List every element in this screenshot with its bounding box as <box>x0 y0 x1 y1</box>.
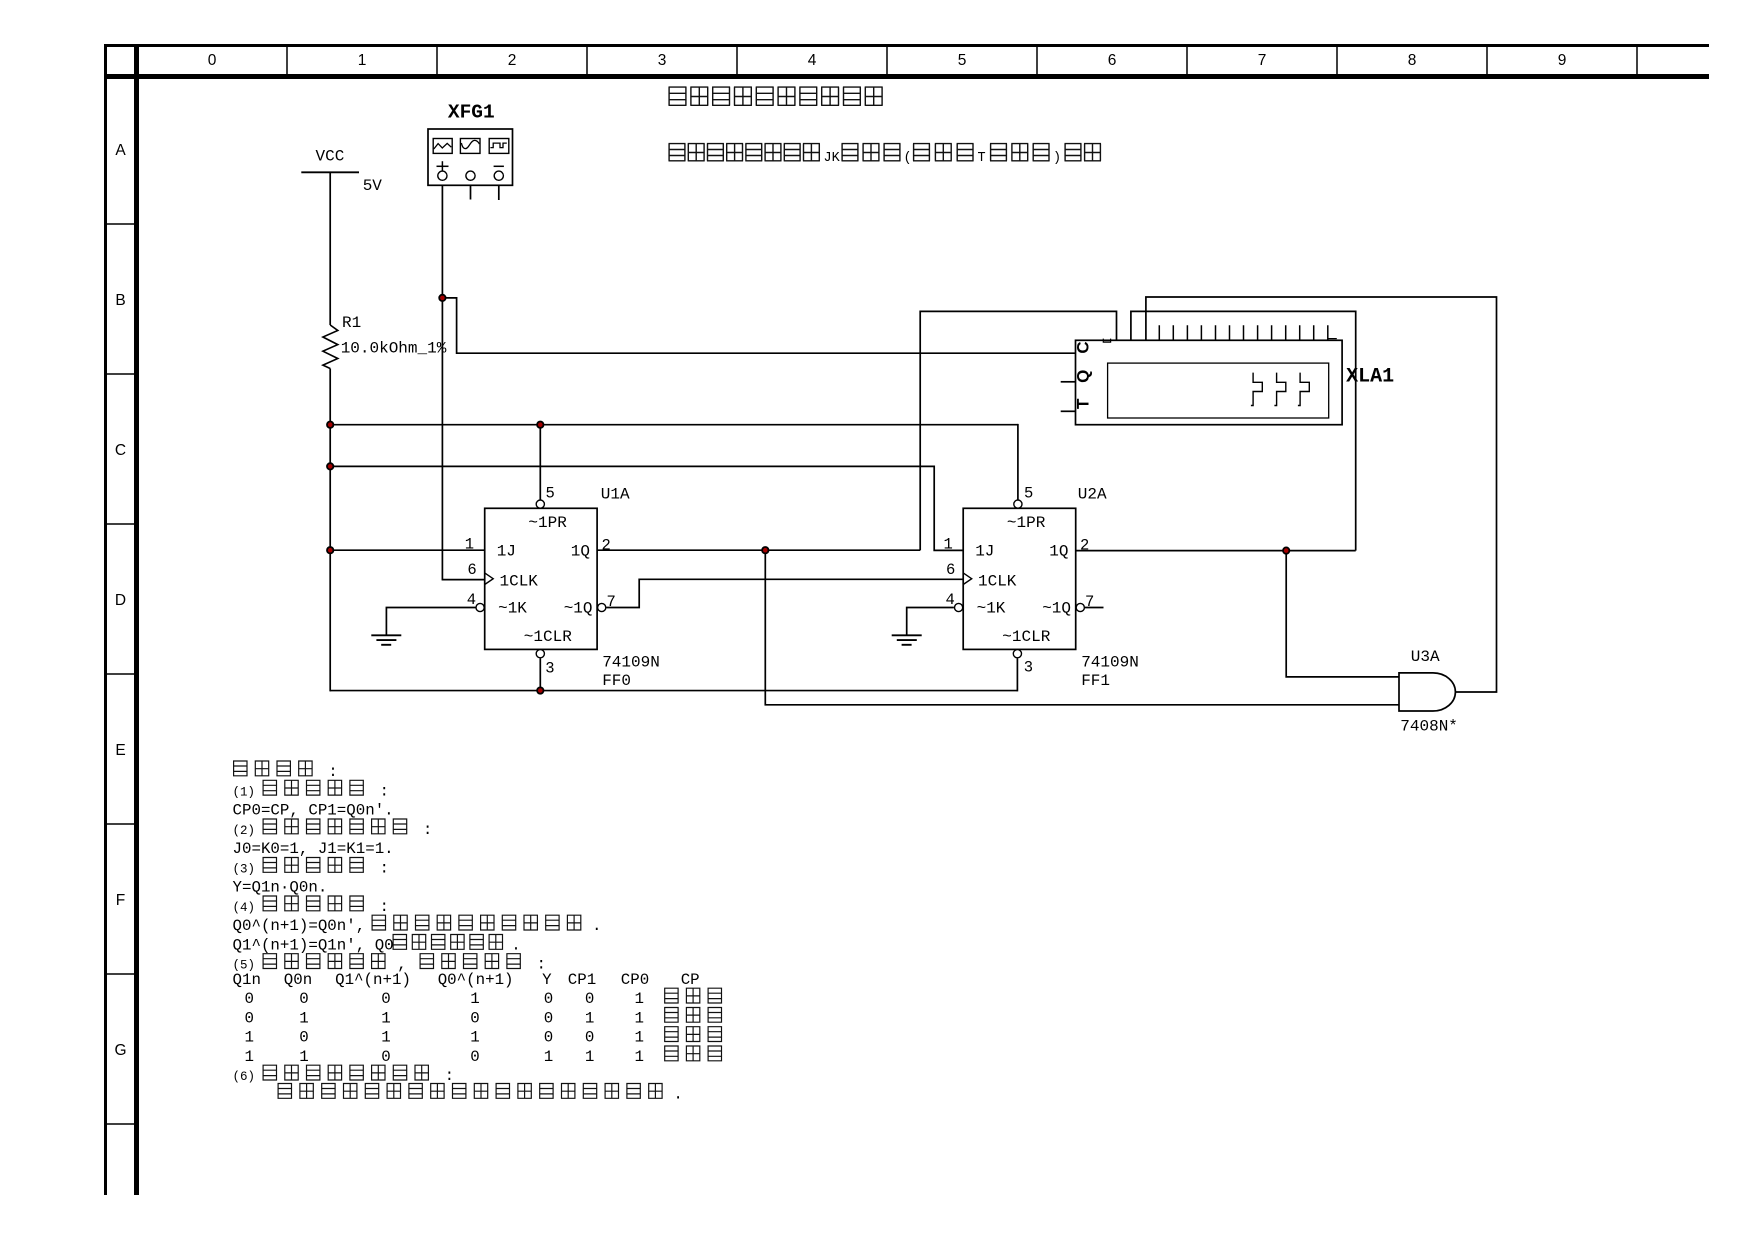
svg-text::: : <box>328 763 337 781</box>
svg-text:1: 1 <box>358 52 367 69</box>
XFG1 plus terminal mark <box>437 165 449 167</box>
svg-text:0: 0 <box>299 990 308 1008</box>
svg-text:1: 1 <box>381 1029 390 1047</box>
wire J rail to U1A 1J <box>330 549 485 551</box>
wire XFG1 negative stub <box>498 181 500 201</box>
svg-text:B: B <box>115 292 125 309</box>
wire U2A pin5 stem <box>1017 424 1019 500</box>
wire U1A ~1Q to U2A 1CLK (node CP1) <box>606 579 963 607</box>
XFG1 + terminal <box>438 171 447 180</box>
XFG1 sine icon <box>433 139 452 154</box>
wire to U1A 1CLK <box>442 579 485 581</box>
svg-text:JK: JK <box>824 151 841 166</box>
svg-text:0: 0 <box>381 1048 390 1066</box>
XLA1 small clock mark <box>1103 339 1110 343</box>
svg-text:4: 4 <box>808 52 817 69</box>
svg-text:XLA1: XLA1 <box>1346 366 1394 389</box>
svg-text:~1Q: ~1Q <box>1042 599 1071 617</box>
svg-text:(3): (3) <box>233 863 256 877</box>
svg-text:1: 1 <box>635 1029 644 1047</box>
svg-text:F: F <box>116 892 125 909</box>
svg-text:1Q: 1Q <box>571 542 590 560</box>
svg-text:5: 5 <box>546 484 555 502</box>
wire U1A ~1K to ground <box>386 608 475 636</box>
sheet border frame: outer top line <box>104 44 1709 47</box>
wire CLR rail horizontal <box>330 690 1017 692</box>
XLA1 last tick hook <box>1328 338 1337 340</box>
svg-text::: : <box>423 821 432 839</box>
wire U1A 1Q output (node Q0) <box>597 549 920 551</box>
svg-text:1: 1 <box>585 1009 594 1027</box>
svg-text::: : <box>380 860 389 878</box>
U1A pin 5 ~1PR bubble <box>536 500 544 508</box>
junction U1A pin3 on CLR rail <box>537 687 543 693</box>
svg-text:4: 4 <box>946 591 955 609</box>
wire U2A ~1Q stub <box>1085 607 1104 609</box>
wire U1A pin5 stem <box>539 424 541 500</box>
svg-text:0: 0 <box>585 990 594 1008</box>
subtitle 采用上升沿触发的JK触发器(改造成T触发器)实现 <box>669 144 820 161</box>
power VCC symbol <box>301 171 359 173</box>
wire XLA1 T stub <box>1061 410 1076 412</box>
logic analyzer XLA1 <box>1076 340 1343 424</box>
junction on VCC rail / PR rail <box>327 422 333 428</box>
junction node CP at XFG1 output <box>439 295 445 301</box>
svg-text:1: 1 <box>245 1029 254 1047</box>
wire U2A pin3 stem <box>1016 658 1018 691</box>
svg-text:~1PR: ~1PR <box>528 514 567 532</box>
JK flip-flop U2A 74109N FF1 <box>963 508 1075 649</box>
svg-text:1: 1 <box>635 1048 644 1066</box>
wire PR rail horizontal (node VCC-PR) <box>330 424 1018 426</box>
svg-text:Q1^(n+1)=Q1n', Q0: Q1^(n+1)=Q1n', Q0 <box>233 937 394 955</box>
svg-text:74109N: 74109N <box>1081 654 1139 672</box>
svg-text:~1K: ~1K <box>498 599 527 617</box>
svg-text:1: 1 <box>245 1048 254 1066</box>
svg-text:2: 2 <box>602 537 611 555</box>
svg-text:Q1^(n+1): Q1^(n+1) <box>335 971 411 989</box>
title text 异步四进制加法计数器 <box>669 87 883 105</box>
svg-text:3: 3 <box>1024 659 1033 677</box>
row label dividers <box>107 223 134 225</box>
svg-text:0: 0 <box>544 1009 553 1027</box>
svg-text:XFG1: XFG1 <box>448 102 495 124</box>
sheet border frame: inner left thick line <box>134 44 139 1195</box>
svg-text:8: 8 <box>1408 52 1417 69</box>
wire Q1 down to U3A input A <box>1286 551 1399 677</box>
svg-text:7: 7 <box>607 593 616 611</box>
svg-text:(4): (4) <box>233 901 256 915</box>
svg-text:1CLK: 1CLK <box>978 572 1017 590</box>
svg-text:7: 7 <box>1258 52 1267 69</box>
ground symbol at U1A ~1K <box>371 634 401 636</box>
svg-text:1J: 1J <box>975 542 994 560</box>
wire XLA1 Q stub <box>1061 381 1076 383</box>
svg-text:G: G <box>114 1042 126 1059</box>
svg-text:U1A: U1A <box>601 485 630 503</box>
svg-text:0: 0 <box>245 1009 254 1027</box>
column header dividers <box>286 47 288 74</box>
wire Q0 down to U3A input B <box>765 550 1399 705</box>
U2A pin 5 ~1PR bubble <box>1014 500 1022 508</box>
svg-text:0: 0 <box>299 1029 308 1047</box>
svg-text:Q: Q <box>1074 370 1093 383</box>
svg-text:1: 1 <box>585 1048 594 1066</box>
sheet border frame: outer left line <box>104 44 107 1195</box>
resistor R1 <box>323 325 338 369</box>
svg-text:5V: 5V <box>363 177 383 195</box>
function generator XFG1 <box>428 129 513 185</box>
svg-text:CP0=CP, CP1=Q0n'.: CP0=CP, CP1=Q0n'. <box>233 802 394 820</box>
svg-text:1CLK: 1CLK <box>500 572 539 590</box>
wire VCC stem <box>329 172 331 325</box>
wire XFG1 output down <box>441 181 443 580</box>
svg-text:.: . <box>592 917 601 935</box>
svg-text:~1K: ~1K <box>977 599 1006 617</box>
wire U3A output to XLA1 channel 3 (node Y) <box>1146 297 1497 692</box>
wire R1 bottom rail down <box>329 369 331 692</box>
svg-text:CP: CP <box>681 971 700 989</box>
wire U2A ~1K to ground <box>907 608 954 636</box>
svg-text:1: 1 <box>635 990 644 1008</box>
AND gate U3A 7408N <box>1399 673 1455 711</box>
svg-text:0: 0 <box>585 1029 594 1047</box>
svg-text:2: 2 <box>508 52 517 69</box>
svg-text:3: 3 <box>658 52 667 69</box>
svg-text:1: 1 <box>465 535 474 553</box>
U2A pin 7 ~1Q bubble <box>1076 603 1084 611</box>
svg-text:0: 0 <box>381 990 390 1008</box>
svg-text:T: T <box>978 151 986 166</box>
svg-text:U3A: U3A <box>1411 648 1440 666</box>
svg-text:Y=Q1n·Q0n.: Y=Q1n·Q0n. <box>233 879 328 897</box>
JK flip-flop U1A 74109N FF0 <box>485 508 597 649</box>
U1A pin 7 ~1Q bubble <box>598 603 606 611</box>
svg-text:Q0^(n+1)=Q0n',: Q0^(n+1)=Q0n', <box>233 917 366 935</box>
svg-text:7408N*: 7408N* <box>1400 718 1458 736</box>
svg-text:7: 7 <box>1085 593 1094 611</box>
wire U2A 1Q output (node Q1) <box>1076 550 1356 552</box>
XFG1 common terminal <box>466 171 475 180</box>
svg-text:(6): (6) <box>233 1070 256 1084</box>
junction U1A pin5 on PR rail <box>537 422 543 428</box>
junction on VCC rail / U1A 1J <box>327 547 333 553</box>
svg-text:0: 0 <box>544 1029 553 1047</box>
svg-text:CP0: CP0 <box>621 971 649 989</box>
U1A pin 3 ~1CLR bubble <box>536 650 544 658</box>
svg-text:0: 0 <box>470 1009 479 1027</box>
svg-text:VCC: VCC <box>316 148 345 166</box>
svg-text:6: 6 <box>1108 52 1117 69</box>
svg-text:4: 4 <box>467 591 476 609</box>
svg-text:.: . <box>673 1086 682 1104</box>
svg-text:(: ( <box>904 151 912 166</box>
wire J rail to U2A 1J <box>330 466 963 550</box>
svg-text:CP1: CP1 <box>568 971 596 989</box>
XFG1 square icon <box>489 139 509 154</box>
svg-text:J0=K0=1, J1=K1=1.: J0=K0=1, J1=K1=1. <box>233 840 394 858</box>
svg-text:0: 0 <box>544 990 553 1008</box>
svg-text:(2): (2) <box>233 824 256 838</box>
XLA1 waveform glyphs <box>1251 373 1262 406</box>
svg-text:1J: 1J <box>497 542 516 560</box>
svg-text:Y: Y <box>542 971 552 989</box>
svg-text:10.0kOhm_1%: 10.0kOhm_1% <box>341 339 447 357</box>
svg-text::: : <box>445 1067 454 1085</box>
svg-text:1: 1 <box>470 990 479 1008</box>
svg-text:Q0^(n+1): Q0^(n+1) <box>438 971 514 989</box>
svg-text:1: 1 <box>299 1009 308 1027</box>
svg-text:C: C <box>1074 341 1093 353</box>
svg-text:T: T <box>1074 398 1093 409</box>
svg-text:~1Q: ~1Q <box>564 599 593 617</box>
svg-text::: : <box>380 782 389 800</box>
svg-text:1: 1 <box>944 535 953 553</box>
wire Q1 up to XLA1 channel 2 <box>1131 311 1356 550</box>
U2A pin 3 ~1CLR bubble <box>1013 650 1021 658</box>
svg-text:1: 1 <box>381 1009 390 1027</box>
XFG1 minus terminal mark <box>494 165 504 167</box>
wire XFG1 common stub <box>470 181 472 200</box>
svg-text:74109N: 74109N <box>602 654 660 672</box>
U1A pin 4 ~1K bubble <box>476 603 484 611</box>
svg-text:~1CLR: ~1CLR <box>1002 628 1050 646</box>
svg-text:~1PR: ~1PR <box>1007 514 1046 532</box>
svg-text:Q0n: Q0n <box>284 971 312 989</box>
svg-text:U2A: U2A <box>1078 485 1107 503</box>
XLA1 top channel ticks <box>1159 325 1328 340</box>
analysis text block <box>233 761 313 776</box>
svg-text:A: A <box>115 142 126 159</box>
junction on VCC rail / J rail <box>327 463 333 469</box>
svg-text:0: 0 <box>470 1048 479 1066</box>
svg-text:.: . <box>511 937 520 955</box>
svg-text:6: 6 <box>946 561 955 579</box>
XFG1 triangle icon <box>460 139 480 154</box>
svg-text:E: E <box>115 742 125 759</box>
junction node Q0 <box>762 547 768 553</box>
svg-text:1Q: 1Q <box>1049 542 1068 560</box>
wire clock to XLA1 C input (node CP) <box>442 298 1075 353</box>
svg-text:1: 1 <box>635 1009 644 1027</box>
svg-text:~1CLR: ~1CLR <box>524 628 572 646</box>
svg-text:0: 0 <box>208 52 217 69</box>
svg-text:FF1: FF1 <box>1081 672 1110 690</box>
wire Q0 up to XLA1 channel 1 <box>920 311 1116 550</box>
XFG1 - terminal <box>494 171 503 180</box>
svg-text:): ) <box>1053 151 1061 166</box>
svg-text:5: 5 <box>1024 484 1033 502</box>
svg-text:1: 1 <box>299 1048 308 1066</box>
svg-text:D: D <box>115 592 126 609</box>
svg-text::: : <box>380 898 389 916</box>
svg-text:(1): (1) <box>233 785 256 799</box>
svg-text:2: 2 <box>1080 537 1089 555</box>
svg-text:R1: R1 <box>342 314 361 332</box>
wire U1A pin3 stem <box>539 658 541 691</box>
svg-text:9: 9 <box>1558 52 1567 69</box>
svg-text:3: 3 <box>545 659 554 677</box>
U2A pin 4 ~1K bubble <box>955 603 963 611</box>
svg-text:1: 1 <box>470 1029 479 1047</box>
sheet border frame: header band bottom thick line <box>104 74 1709 79</box>
svg-text:0: 0 <box>245 990 254 1008</box>
svg-text:FF0: FF0 <box>602 672 631 690</box>
svg-text:6: 6 <box>467 561 476 579</box>
svg-text:C: C <box>115 442 126 459</box>
svg-text:Q1n: Q1n <box>233 971 261 989</box>
svg-text:5: 5 <box>958 52 967 69</box>
junction node Q1 <box>1283 547 1289 553</box>
svg-text:1: 1 <box>544 1048 553 1066</box>
ground symbol at U2A ~1K <box>892 634 922 636</box>
